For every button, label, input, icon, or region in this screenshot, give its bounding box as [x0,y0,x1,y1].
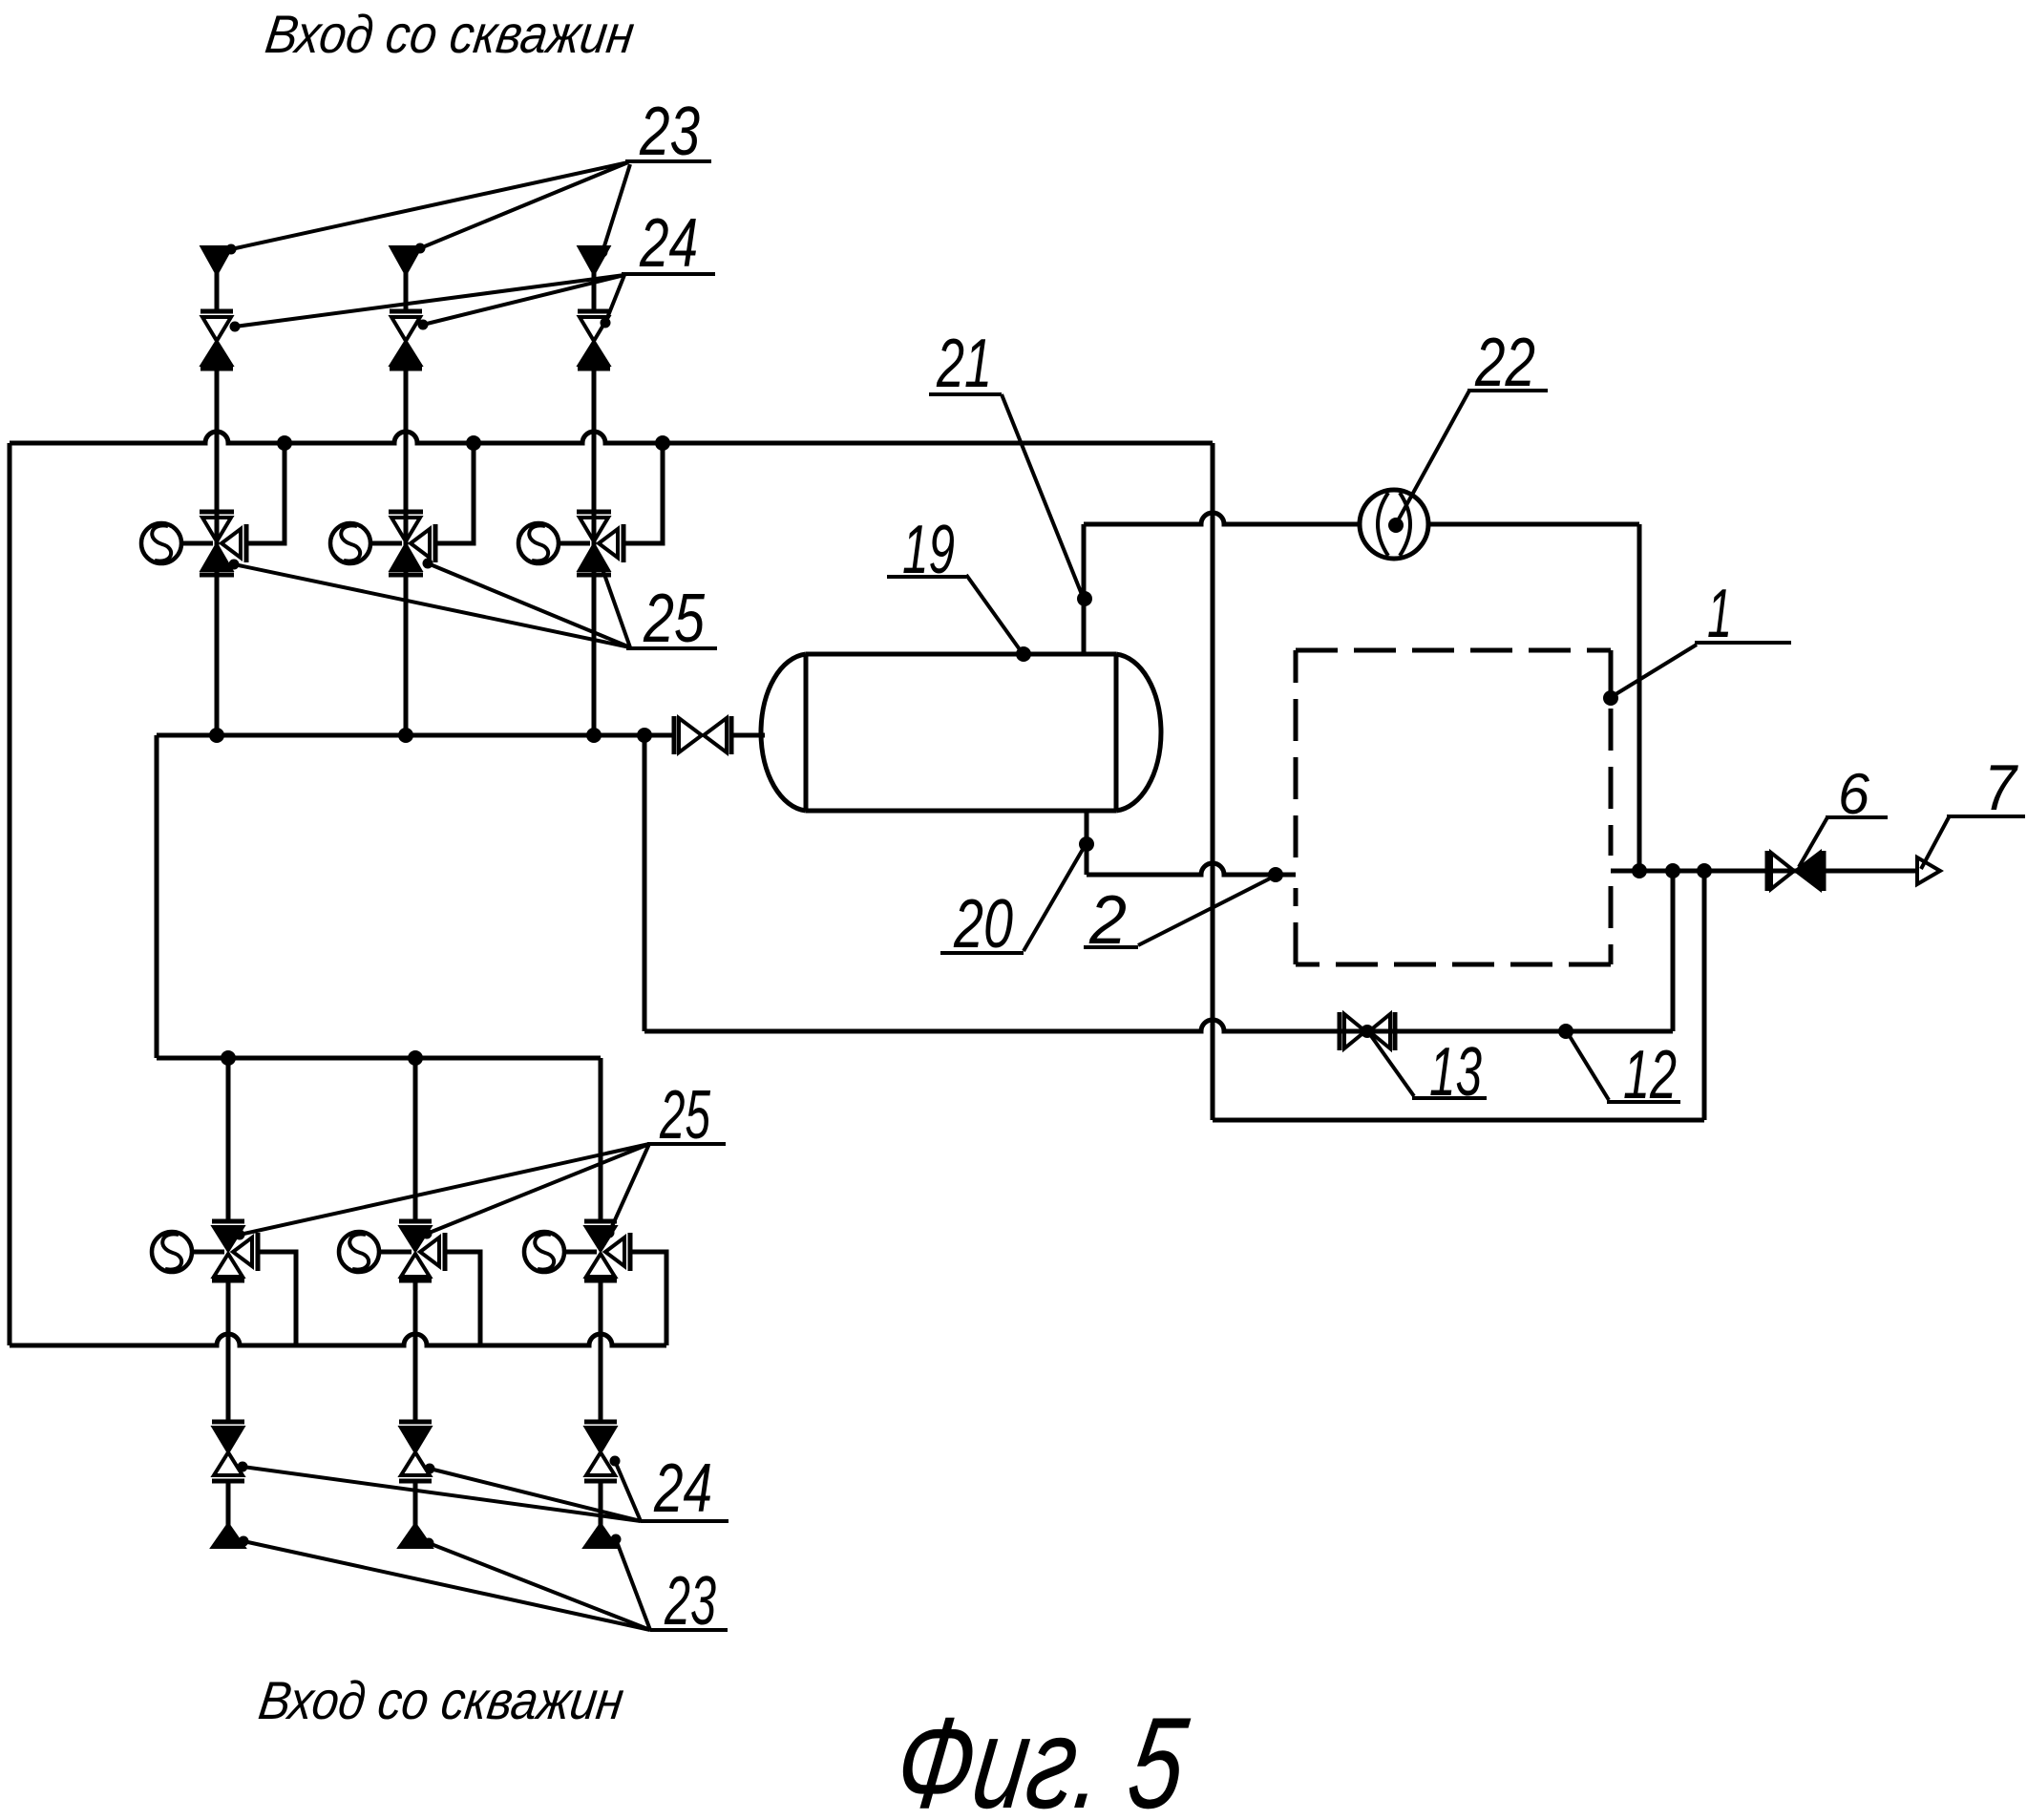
wire: left frame vertical [8,443,12,1345]
wire: valve to separator [731,733,765,738]
wire: line to valve 13 [644,1020,1673,1031]
wire: meter link 3 (bottom) [564,1250,597,1255]
junction dot on top header at drop 3 [655,435,670,451]
junction dot node 20 [1079,836,1094,852]
arrow 23 well-inlet 1 (bottom) [213,1525,243,1547]
valve 24 #3 (top) seat bars [578,309,610,314]
svg-text:7: 7 [1984,751,2018,824]
leader 24 bottom -> valves [243,1467,641,1521]
leader 25 bottom -> 3-way valves [240,1144,649,1235]
3-way valve 25 #1 (top) lower disc [202,545,231,570]
valve 24 #2 (top) upper disc [391,317,420,341]
valve 24 #2 (top) seat bars [390,309,422,314]
valve 24 #2 (bottom) upper disc [401,1428,430,1451]
junction dots manifold bottom [221,1050,236,1066]
leader 12 -> node 12 [1568,1033,1609,1100]
wire: well pipe 3 through bottom header [599,1280,603,1422]
svg-text:25: 25 [643,581,706,657]
3-way valve 25 #3 (bottom) seat bars [584,1219,617,1224]
wire: well pipe 1 through bottom header [226,1280,231,1422]
leader 19 -> separator [966,575,1022,652]
wire: valve 13 line up to outlet [1671,871,1676,1031]
wire: gas run to meter 22 [1084,513,1639,524]
junction dots on outlet line [1632,863,1647,878]
3-way valve 25 #2 (bottom) side disc [420,1238,439,1266]
leader 2 -> inlet node [1138,877,1274,945]
wire: meter 22 down to outlet line [1637,524,1642,871]
arrow 7 (outlet) [1917,857,1940,884]
wire: bottom inlet header [10,1334,666,1345]
valve 24 #2 (bottom) lower disc [401,1452,430,1475]
leader 22 -> meter [1396,391,1469,524]
valve 24 #1 (top) seat bars [201,309,233,314]
leader 23 top -> arrows [231,162,628,249]
wire: pipe arrow->valve 3 (top) [592,271,597,313]
junction dot on top header at drop 2 [466,435,481,451]
metering device 1 (dashed outline) [1296,648,1611,653]
meter circle 1 (bottom row) [152,1232,192,1272]
wire: top inlet header [10,432,1213,443]
3-way valve 25 #2 (bottom) seat bars [399,1219,432,1224]
wire: meter link 3 (top) [559,541,590,546]
valve 24 #1 (top) lower disc [202,342,231,365]
wire: drop from header to 3-way valve 3 (top) [625,443,663,543]
junction dot on top header at drop 1 [277,435,292,451]
svg-text:24: 24 [639,205,698,282]
valve 24 #1 (bottom) seat bars [212,1420,244,1425]
meter circle 2 (bottom row) [339,1232,379,1272]
3-way valve 25 #3 (top) side disc [599,529,618,558]
meter circle 3 (bottom row) [524,1232,564,1272]
3-way valve 25 #3 (bottom) upper disc [586,1227,615,1250]
svg-text:Вход со скважин: Вход со скважин [262,4,638,64]
leader 7 -> outlet arrow [1921,817,1949,869]
leader 6 -> valve 6 [1799,817,1827,867]
valve 13 center [1361,1025,1374,1038]
3-way valve 25 #3 (bottom) lower disc [586,1254,615,1277]
3-way valve 25 #3 (top) lower disc [580,545,608,570]
3-way valve 25 #2 (bottom) upper disc [401,1227,430,1250]
3-way valve 25 #3 (top) seat bars [577,510,611,515]
wire: 3-way valve 3 drop to bottom header [632,1252,666,1345]
wire: 3-way valve 1 drop to bottom header [260,1252,296,1345]
3-way valve 25 #1 (top) upper disc [202,518,231,541]
leader 20 -> outlet pipe [1024,846,1085,951]
svg-text:24: 24 [653,1450,712,1527]
3-way valve 25 #1 (bottom) seat bars [212,1219,244,1224]
3-way valve 25 #2 (top) side disc [411,529,430,558]
wire: pipe valve->arrow 3 (bottom) [599,1481,603,1528]
wire: manifold bottom run [157,1056,601,1061]
wire: manifold top run [157,733,674,738]
junction dot node 12 [1558,1024,1573,1039]
wire: drop from header to 3-way valve 2 (top) [437,443,474,543]
wire: 3-way valve 2 drop to bottom header [447,1252,480,1345]
wire: well pipe 2 through bottom header [413,1280,418,1422]
valve 6 discs [1771,853,1794,889]
wire: meter link 2 (top) [370,541,402,546]
valve 24 #3 (bottom) upper disc [586,1428,615,1451]
wire: drop from header to 3-way valve 1 (top) [248,443,285,543]
wire: manifold right drop [643,735,647,1031]
wire: separator bottom outlet [1085,811,1089,875]
meter circle 2 (top row) [330,523,370,563]
3-way valve 25 #2 (top) side bar [433,524,438,562]
leader 1 -> device box [1613,645,1697,696]
wire: manifold to 3-way valve 3 (bottom) [599,1058,603,1221]
wire: well pipe 1 through header (top) [215,369,220,735]
3-way valve 25 #1 (top) side disc [222,529,241,558]
valve 24 #2 (top) lower disc [391,342,420,365]
valve 6 flanges [1765,851,1770,891]
valve 24 #3 (top) upper disc [580,317,608,341]
valve 24 #1 (bottom) upper disc [214,1428,243,1451]
separator 19 shell [806,652,1116,657]
wire: manifold to 3-way valve 2 (bottom) [413,1058,418,1221]
wire: manifold left side [155,735,159,1058]
3-way valve 25 #1 (bottom) side bar [256,1233,261,1271]
3-way valve 25 #1 (top) seat bars [200,510,234,515]
leader 21 -> riser [1002,394,1083,597]
leader 13 -> valve 13 [1369,1033,1414,1096]
wire: pipe arrow->valve 2 (top) [404,271,409,313]
3-way valve 25 #2 (top) lower disc [391,545,420,570]
3-way valve 25 #3 (bottom) side bar [628,1233,633,1271]
3-way valve 25 #2 (bottom) side bar [443,1233,448,1271]
wire: bypass bottom run [1213,1118,1704,1123]
junction dot node 2 [1268,867,1283,882]
3-way valve 25 #2 (bottom) lower disc [401,1254,430,1277]
wire: manifold to 3-way valve 1 (bottom) [226,1058,231,1221]
wire: well pipe 3 through header (top) [592,369,597,735]
wire: meter link 1 (top) [181,541,213,546]
valve 24 #2 (bottom) seat bars [399,1420,432,1425]
3-way valve 25 #3 (bottom) side disc [605,1238,624,1266]
meter circle 1 (top row) [141,523,181,563]
wire: pipe arrow->valve 1 (top) [215,271,220,313]
3-way valve 25 #3 (top) side bar [622,524,626,562]
valve 24 #3 (top) lower disc [580,342,608,365]
svg-text:23: 23 [639,94,700,170]
wire: meter link 1 (bottom) [192,1250,224,1255]
3-way valve 25 #1 (bottom) lower disc [214,1254,243,1277]
valve 24 #1 (top) upper disc [202,317,231,341]
wire: meter link 2 (bottom) [379,1250,412,1255]
3-way valve 25 #3 (top) upper disc [580,518,608,541]
leader 24 top -> valves [235,275,624,327]
svg-text:Вход со скважин: Вход со скважин [255,1670,627,1730]
wire: long bypass vertical (line 12 riser) [1211,443,1215,1120]
meter 22 circle [1360,490,1428,559]
separator inlet valve flanges [672,716,677,754]
valve 24 #1 (bottom) lower disc [214,1452,243,1475]
junction dots manifold top [209,728,224,743]
valve 13 discs [1344,1014,1365,1048]
meter circle 3 (top row) [518,523,559,563]
wire: riser from separator top (node 21) [1082,524,1087,654]
arrow 23 well-inlet 3 (bottom) [585,1525,616,1547]
3-way valve 25 #1 (bottom) upper disc [214,1227,243,1250]
3-way valve 25 #2 (top) upper disc [391,518,420,541]
leader 25 top -> 3-way valves [234,564,630,647]
wire: pipe valve->arrow 1 (bottom) [226,1481,231,1528]
wire: well pipe 2 through header (top) [404,369,409,735]
3-way valve 25 #2 (top) seat bars [389,510,423,515]
arrow 23 well-inlet 2 (bottom) [400,1525,431,1547]
valve 13 flanges [1338,1012,1342,1050]
wire: outlet line [1611,869,1917,874]
wire: bypass up to outlet [1702,871,1707,1120]
3-way valve 25 #1 (top) side bar [244,524,249,562]
svg-text:Фиг. 5: Фиг. 5 [888,1690,1195,1820]
arrow 23 well-inlet 2 (top) [391,247,420,273]
wire: pipe valve->arrow 2 (bottom) [413,1481,418,1528]
valve 24 #3 (bottom) lower disc [586,1452,615,1475]
arrow 23 well-inlet 3 (top) [580,247,608,273]
leader 23 bottom -> arrows [243,1541,650,1630]
3-way valve 25 #1 (bottom) side disc [233,1238,252,1266]
svg-text:21: 21 [936,326,992,402]
separator inlet valve discs [679,718,702,752]
arrow 23 well-inlet 1 (top) [202,247,231,273]
valve 24 #3 (bottom) seat bars [584,1420,617,1425]
